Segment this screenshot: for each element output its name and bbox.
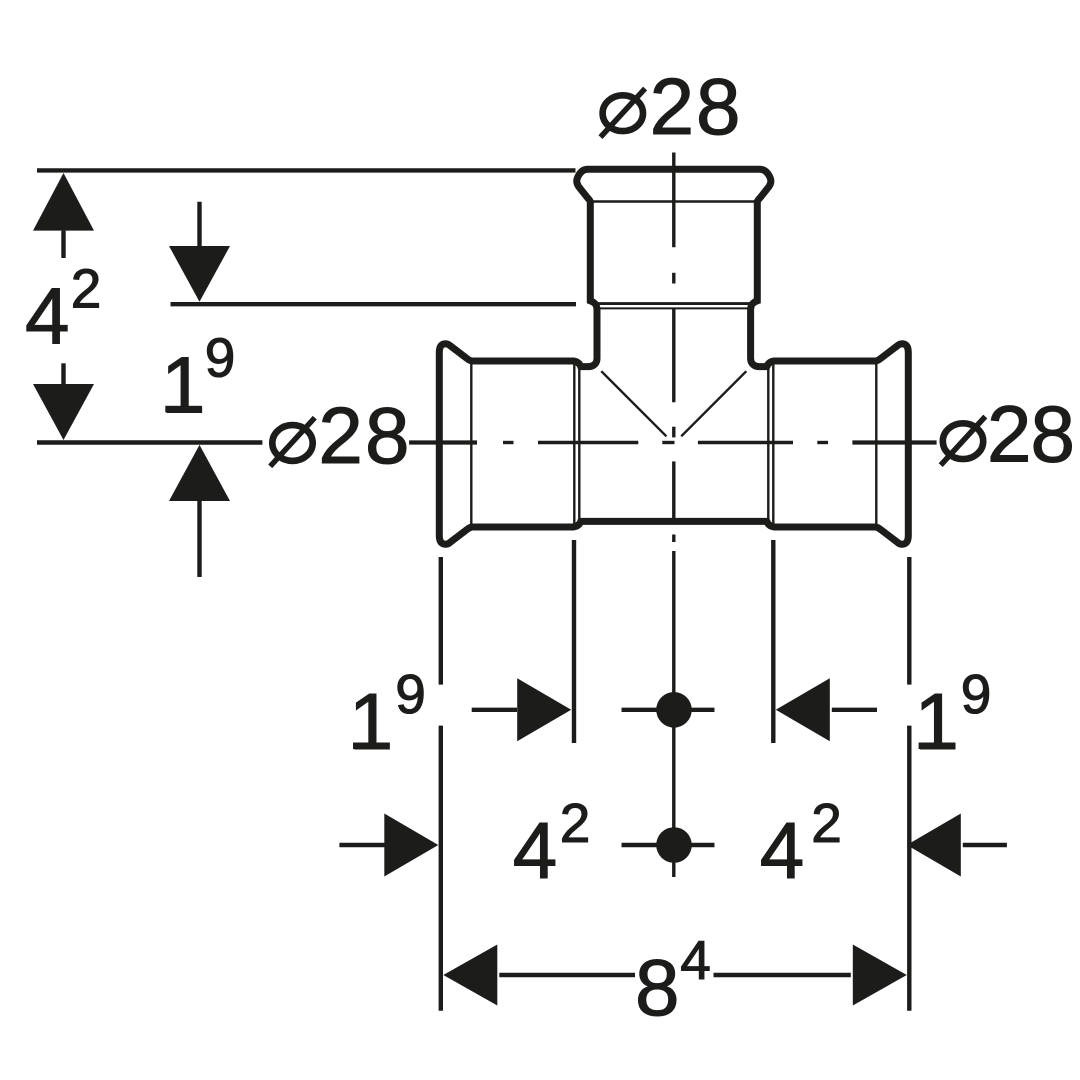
extension line right stop <box>771 540 775 743</box>
svg-text:9: 9 <box>205 326 236 388</box>
row1 arrow right <box>517 678 571 741</box>
row2 center dot <box>656 827 692 863</box>
arrow down (4x2 bottom) <box>33 384 94 440</box>
label 4.2 row2 left <box>513 792 591 895</box>
row3 arrow right <box>853 945 907 1006</box>
extension line left stop <box>572 540 576 743</box>
svg-text:2: 2 <box>318 391 363 480</box>
tee fitting outline <box>439 169 908 544</box>
right socket flare inner line <box>875 363 877 525</box>
dimension line C (left part of horizontal axis) <box>37 440 262 444</box>
row2 dim line left <box>339 843 386 847</box>
top socket flare inner line <box>590 200 757 202</box>
extension line left end <box>439 557 443 1011</box>
label 4.2 row2 right <box>760 792 842 895</box>
label 8.4 row3 <box>635 929 711 1032</box>
left socket mouth lines <box>573 364 575 524</box>
svg-text:4: 4 <box>760 806 805 895</box>
row3 dim line right <box>714 973 851 977</box>
label 4.2 left column <box>25 258 101 361</box>
left socket flare inner line <box>470 363 472 525</box>
svg-text:8: 8 <box>635 943 680 1032</box>
4x2 dim upper arrow tail <box>61 231 65 258</box>
vertical centerline <box>672 153 675 878</box>
label diameter 28 left <box>270 391 409 480</box>
svg-text:8: 8 <box>696 62 741 151</box>
svg-text:8: 8 <box>365 391 410 480</box>
4x2 dim lower arrow tail <box>61 363 65 384</box>
dimension line B (level with top socket stop) <box>171 302 577 306</box>
row2 arrow right <box>384 814 438 877</box>
arrow down (1x9 to stop line) <box>169 246 230 302</box>
row1 dim line right <box>832 708 877 712</box>
row1 arrow left <box>776 678 830 741</box>
svg-text:1: 1 <box>349 677 394 766</box>
svg-text:1: 1 <box>161 340 206 429</box>
svg-text:2: 2 <box>560 792 591 854</box>
row2 dim stub center <box>622 843 715 847</box>
svg-text:9: 9 <box>395 663 426 725</box>
row2 dim line right <box>963 843 1007 847</box>
svg-text:4: 4 <box>513 806 558 895</box>
svg-text:8: 8 <box>1031 390 1076 479</box>
label diameter 28 top <box>601 62 741 151</box>
svg-text:2: 2 <box>987 390 1032 479</box>
label 1.9 row1 left <box>349 663 426 766</box>
1x9 dim upper arrow tail <box>197 202 201 246</box>
label 1.9 left column <box>161 326 235 429</box>
top socket mouth lines <box>595 302 754 305</box>
row2 arrow left <box>907 814 961 877</box>
svg-text:4: 4 <box>680 929 711 991</box>
extension line right end <box>907 557 911 1011</box>
right socket mouth lines <box>767 364 769 524</box>
label diameter 28 right <box>941 390 1075 479</box>
svg-text:2: 2 <box>811 792 842 854</box>
row1 center dot <box>656 692 692 728</box>
V weld line right <box>681 371 746 436</box>
label 1.9 row1 right <box>914 663 991 766</box>
row1 dim stub center <box>622 708 715 712</box>
row3 dim line left <box>499 973 635 977</box>
row1 dim line left <box>472 708 517 712</box>
svg-text:2: 2 <box>650 62 695 151</box>
svg-text:1: 1 <box>914 677 959 766</box>
V weld line left <box>601 371 666 436</box>
horizontal centerline <box>409 440 937 444</box>
svg-text:4: 4 <box>25 272 70 361</box>
dimension line A (top, level with flare top) <box>37 168 576 172</box>
arrow up (1x9 to axis) <box>169 445 230 501</box>
1x9 dim lower arrow tail <box>197 501 201 577</box>
svg-text:2: 2 <box>71 258 102 320</box>
svg-text:9: 9 <box>961 663 992 725</box>
arrow up (4x2 top) <box>33 173 94 231</box>
row3 arrow left <box>443 945 497 1006</box>
